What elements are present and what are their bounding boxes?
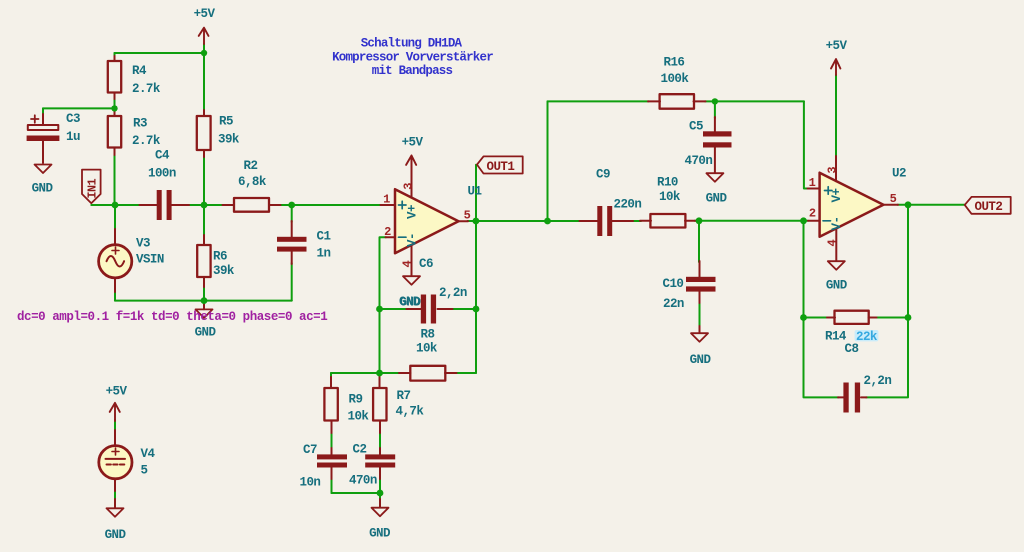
svg-text:Kompressor Vorverstärker: Kompressor Vorverstärker <box>332 51 493 65</box>
capacitor C1 <box>277 221 330 264</box>
svg-text:R5: R5 <box>219 115 233 129</box>
svg-text:2: 2 <box>384 225 391 239</box>
svg-text:dc=0 ampl=0.1 f=1k td=0 theta=: dc=0 ampl=0.1 f=1k td=0 theta=0 phase=0 … <box>17 310 327 324</box>
svg-text:C6: C6 <box>419 257 433 271</box>
wire +5V stem to R5 top <box>203 44 205 111</box>
svg-text:V3: V3 <box>136 237 150 251</box>
wire R5 bottom to main node <box>203 156 205 205</box>
svg-text:3: 3 <box>401 183 415 190</box>
wire R9 R8 node horizontal <box>331 372 400 374</box>
wire R3 bottom to main wire <box>114 154 116 205</box>
capacitor C10 <box>663 261 716 311</box>
svg-text:IN1: IN1 <box>85 178 99 198</box>
svg-text:OUT1: OUT1 <box>487 160 515 174</box>
svg-text:+5V: +5V <box>106 385 128 399</box>
svg-text:22n: 22n <box>663 297 684 311</box>
node U2 out <box>905 201 912 208</box>
svg-text:+5V: +5V <box>194 7 216 21</box>
wire U1 output run <box>468 220 581 222</box>
svg-text:V-: V- <box>406 233 420 247</box>
wire C4 right to R2 left <box>188 204 224 206</box>
svg-text:C7: C7 <box>303 443 317 457</box>
wire R4 top stub <box>114 53 116 57</box>
wire R6 bottom <box>203 286 205 301</box>
ground under U2 pin4 <box>826 261 848 292</box>
wire C10 top <box>698 221 700 262</box>
wire U2 output run <box>898 204 965 206</box>
wire R2 right to U1 pin1 <box>280 204 382 206</box>
title text <box>332 37 493 79</box>
svg-text:C4: C4 <box>155 149 170 163</box>
ground under C2 <box>369 499 391 541</box>
svg-text:C5: C5 <box>689 120 703 134</box>
wire C9 to R10 <box>626 220 641 222</box>
capacitor C3 <box>27 112 80 163</box>
wire R10 to U2 pin2 <box>695 220 809 222</box>
power +5V top-left <box>194 7 216 44</box>
svg-text:470n: 470n <box>349 473 377 487</box>
node R6/GND bus <box>201 297 208 304</box>
svg-text:2: 2 <box>809 206 816 220</box>
svg-text:5: 5 <box>141 464 148 478</box>
svg-text:GND: GND <box>706 191 728 205</box>
wire bottom gnd bus <box>332 492 381 494</box>
wire C10 bottom <box>699 302 701 327</box>
wire U2 out vertical x908 <box>866 205 908 398</box>
node R14 right <box>905 314 912 321</box>
resistor R4 <box>108 56 161 99</box>
power +5V above U1 <box>402 135 424 165</box>
svg-text:4: 4 <box>825 240 839 247</box>
node C7/C2 gnd <box>377 490 384 497</box>
wire C6 right <box>452 308 476 310</box>
svg-text:V+: V+ <box>406 205 420 219</box>
svg-text:2.7k: 2.7k <box>132 134 161 148</box>
wire R7 bottom to C2 <box>379 431 381 449</box>
node R2/C1 <box>288 202 295 209</box>
wire V3 top <box>114 205 116 230</box>
svg-text:2,2n: 2,2n <box>864 374 892 388</box>
svg-text:220n: 220n <box>614 198 642 212</box>
svg-text:V+: V+ <box>830 189 844 203</box>
svg-text:R4: R4 <box>132 64 147 78</box>
power +5V above U2 <box>826 39 848 75</box>
ground under C5 <box>706 173 728 205</box>
wire C6 left <box>380 308 408 310</box>
svg-text:GND: GND <box>105 528 127 542</box>
node C4/R5/R6/R2 <box>201 202 208 209</box>
wire U2 pin2 down vertical x803.5 <box>804 221 839 398</box>
wire R16 right run <box>705 100 804 102</box>
svg-text:10k: 10k <box>348 410 370 424</box>
capacitor C7 <box>300 443 348 490</box>
wire C1 top <box>291 205 293 222</box>
ground under C10 <box>690 326 712 367</box>
svg-text:100n: 100n <box>148 167 176 181</box>
capacitor C8 <box>838 374 891 413</box>
svg-text:R7: R7 <box>397 389 411 403</box>
wire down to U2 pin1 <box>804 101 808 188</box>
ground under C3 <box>32 165 54 196</box>
node C6 right <box>473 306 480 313</box>
wire OUT1 vertical <box>475 165 477 373</box>
voltage source V4 <box>99 430 156 491</box>
svg-text:10k: 10k <box>659 190 681 204</box>
svg-text:OUT2: OUT2 <box>975 200 1003 214</box>
wire R6 top <box>203 205 205 236</box>
wire U1 pin2 vertical <box>380 237 387 373</box>
wire R4 bottom to node <box>114 98 116 110</box>
wire R7 top stub <box>379 373 381 378</box>
svg-text:5: 5 <box>890 192 897 206</box>
resistor R3 <box>108 108 161 155</box>
node R9/R8/R7 <box>376 370 383 377</box>
capacitor C2 <box>349 442 395 487</box>
svg-text:GND: GND <box>369 527 391 541</box>
resistor R9 <box>324 377 369 433</box>
svg-text:39k: 39k <box>213 264 235 278</box>
wire C1 bottom <box>291 263 293 301</box>
svg-text:1: 1 <box>383 192 390 206</box>
svg-text:5: 5 <box>464 208 471 222</box>
svg-text:GND: GND <box>195 325 217 339</box>
resistor R8 <box>399 328 457 381</box>
svg-text:C2: C2 <box>353 442 367 456</box>
svg-text:22k: 22k <box>856 330 878 344</box>
node R10/C10 <box>696 217 703 224</box>
svg-text:Schaltung DH1DA: Schaltung DH1DA <box>361 37 463 51</box>
wire C3 branch horizontal <box>43 107 115 109</box>
svg-text:GND: GND <box>399 295 421 309</box>
svg-text:C1: C1 <box>317 230 331 244</box>
svg-text:100k: 100k <box>661 72 690 86</box>
svg-text:39k: 39k <box>218 133 240 147</box>
svg-text:+5V: +5V <box>826 39 848 53</box>
svg-text:4,7k: 4,7k <box>396 405 425 419</box>
svg-text:10n: 10n <box>300 475 321 489</box>
ground under U1 pin4 <box>400 276 422 309</box>
ground under V4 <box>105 499 127 542</box>
svg-text:VSIN: VSIN <box>136 253 164 267</box>
node R4/R3/C3 <box>111 105 117 111</box>
svg-text:4: 4 <box>401 261 415 268</box>
capacitor C6 <box>399 257 467 324</box>
wire R9 top stub <box>330 373 332 378</box>
svg-text:3: 3 <box>825 167 839 174</box>
wire bottom ground bus <box>115 300 292 302</box>
svg-text:R3: R3 <box>133 116 147 130</box>
svg-text:R9: R9 <box>349 393 363 407</box>
wire V4 bottom green bit <box>114 490 116 500</box>
wire R14 left <box>804 317 828 319</box>
label IN1 <box>82 170 101 204</box>
svg-text:470n: 470n <box>685 154 713 168</box>
power +5V above V4 <box>106 385 128 421</box>
svg-text:R2: R2 <box>244 159 258 173</box>
node U2 pin2 <box>800 217 807 224</box>
wire C2 bottom <box>379 478 381 493</box>
wire feedback vertical x547 <box>547 101 549 221</box>
capacitor C9 <box>580 168 642 237</box>
svg-text:R10: R10 <box>657 176 678 190</box>
label OUT1 <box>477 156 523 174</box>
svg-text:10k: 10k <box>416 342 438 356</box>
svg-text:C9: C9 <box>596 168 610 182</box>
svg-text:GND: GND <box>32 182 54 196</box>
op-amp U2 <box>808 156 906 261</box>
svg-text:1n: 1n <box>317 247 331 261</box>
resistor R14 <box>825 311 878 357</box>
wire R14 right <box>876 317 908 319</box>
svg-text:6,8k: 6,8k <box>238 175 267 189</box>
resistor R10 <box>640 176 696 228</box>
wire C5 top <box>714 101 716 118</box>
resistor R5 <box>197 110 240 157</box>
svg-text:C10: C10 <box>663 277 684 291</box>
op-amp U1 <box>381 156 482 276</box>
svg-text:GND: GND <box>690 353 712 367</box>
node feedback tap <box>544 218 551 225</box>
svg-text:+5V: +5V <box>402 135 424 149</box>
svg-text:V-: V- <box>830 217 844 231</box>
svg-text:R16: R16 <box>664 55 685 69</box>
node IN1/V3/C4 <box>112 202 119 209</box>
svg-text:U2: U2 <box>892 166 906 180</box>
node +5V/R4/R5 <box>201 50 207 56</box>
node R16/C5 <box>712 98 718 104</box>
wire main input IN1 to C4 <box>91 204 140 206</box>
wire V3 bottom <box>114 292 116 301</box>
resistor R6 <box>197 235 235 287</box>
svg-text:R6: R6 <box>213 250 227 264</box>
svg-text:1u: 1u <box>66 130 80 144</box>
wire V4 top green bit <box>114 420 116 431</box>
label OUT2 <box>965 197 1011 214</box>
wire R9 bottom to C7 <box>331 431 333 449</box>
wire U2 pin3 supply <box>835 75 837 156</box>
capacitor C4 <box>140 149 190 221</box>
svg-text:U1: U1 <box>468 185 482 199</box>
svg-text:C8: C8 <box>845 342 859 356</box>
svg-text:2.7k: 2.7k <box>132 82 161 96</box>
wire R8 right <box>456 372 476 374</box>
svg-text:mit Bandpass: mit Bandpass <box>372 64 453 78</box>
resistor R2 <box>223 159 281 212</box>
wire gnd stub below junction <box>379 493 381 500</box>
svg-text:V4: V4 <box>141 447 156 461</box>
node R14 left <box>800 314 807 321</box>
svg-text:R8: R8 <box>421 328 435 342</box>
svg-text:1: 1 <box>809 176 816 190</box>
node U1 out <box>473 218 480 225</box>
ground under V3 node <box>195 301 217 340</box>
svg-text:2,2n: 2,2n <box>439 286 467 300</box>
capacitor C5 <box>685 117 732 173</box>
resistor R7 <box>373 377 424 433</box>
wire top rail R4 to +5V node <box>115 52 205 54</box>
wire feedback top to R16 <box>548 100 649 102</box>
voltage source V3 <box>99 229 164 292</box>
svg-text:GND: GND <box>826 278 848 292</box>
node C6 left <box>376 306 383 313</box>
wire C7 bottom <box>331 478 333 493</box>
svg-text:C3: C3 <box>66 112 80 126</box>
wire C3 branch vertical <box>42 108 44 115</box>
resistor R16 <box>648 55 706 108</box>
